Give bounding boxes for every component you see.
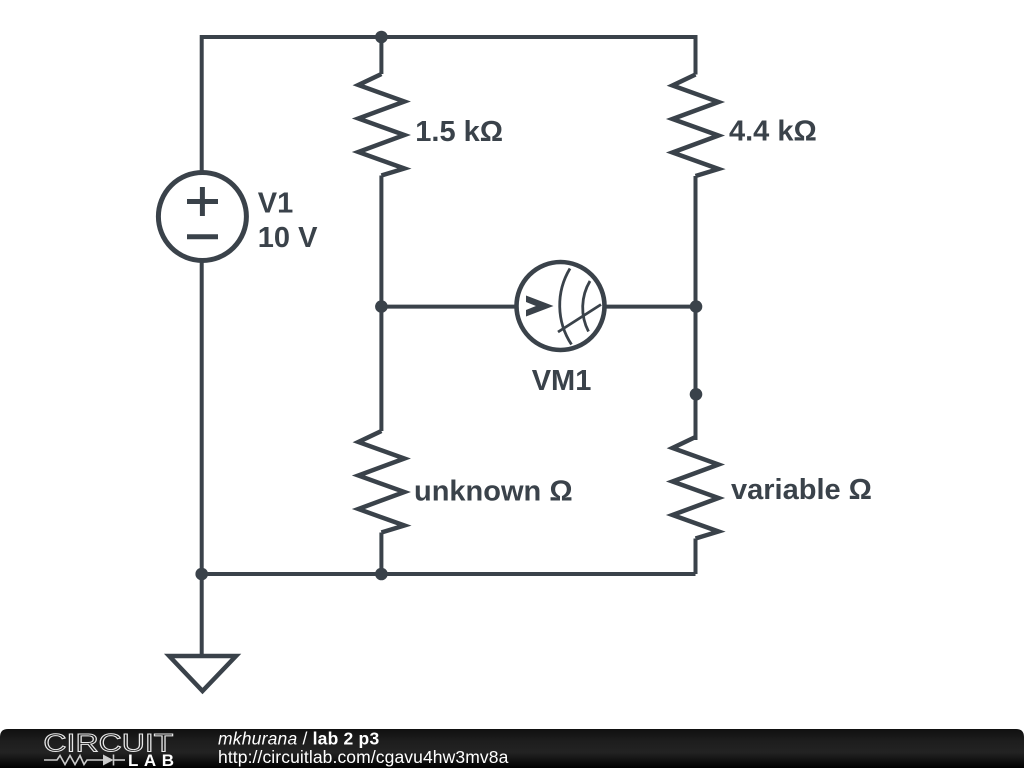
svg-text:4.4 kΩ: 4.4 kΩ [729, 115, 817, 147]
svg-text:http://circuitlab.com/cgavu4hw: http://circuitlab.com/cgavu4hw3mv8a [218, 747, 509, 767]
svg-text:VM1: VM1 [532, 365, 592, 397]
svg-text:LAB: LAB [128, 751, 174, 768]
svg-text:1.5 kΩ: 1.5 kΩ [415, 116, 503, 148]
svg-text:V1: V1 [258, 187, 293, 219]
svg-text:10 V: 10 V [258, 222, 318, 254]
svg-text:variable Ω: variable Ω [731, 474, 872, 506]
svg-text:mkhurana / lab 2 p3: mkhurana / lab 2 p3 [218, 729, 379, 749]
svg-text:unknown Ω: unknown Ω [414, 476, 573, 508]
